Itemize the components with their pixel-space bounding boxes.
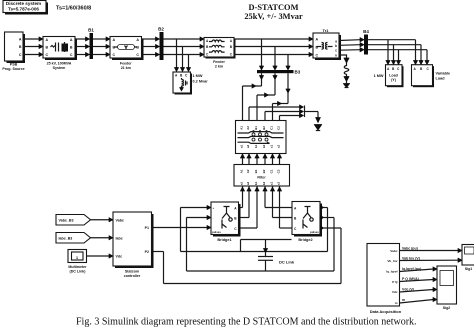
from tag Vabc_B3 xyxy=(56,215,113,226)
svg-text:Load: Load xyxy=(436,77,446,81)
pulse wire P2 to bridge2 xyxy=(152,228,342,284)
bus B2 xyxy=(158,27,164,61)
svg-text:A: A xyxy=(316,38,319,42)
svg-text:C: C xyxy=(113,53,116,57)
from tag Iabc_B3 xyxy=(56,233,113,244)
wire feeder21 to B2 xyxy=(142,37,160,57)
wire PSB to system (3 phases) xyxy=(23,37,43,57)
svg-text:Sig1: Sig1 xyxy=(465,267,473,271)
svg-text:Fig. 3 Simulink diagram repres: Fig. 3 Simulink diagram representing the… xyxy=(76,317,417,327)
svg-text:Vdc (V): Vdc (V) xyxy=(402,287,414,291)
IGBT bridge1 xyxy=(211,202,241,242)
wires B4 to loads (3 rails with taps) xyxy=(368,40,429,65)
svg-text:b2: b2 xyxy=(262,144,266,148)
svg-text:Bridge1: Bridge1 xyxy=(217,238,231,242)
svg-text:Vabc_B3: Vabc_B3 xyxy=(59,219,74,223)
25 kV 100MVA system block xyxy=(43,37,77,70)
svg-text:25 kV, 100MVA: 25 kV, 100MVA xyxy=(47,61,72,65)
signal wires to scopes xyxy=(400,246,463,303)
svg-text:B1: B1 xyxy=(254,126,258,130)
svg-text:Iabc: Iabc xyxy=(116,236,123,240)
statcom controller block xyxy=(113,212,154,278)
svg-text:A1: A1 xyxy=(240,169,244,173)
svg-text:C: C xyxy=(19,53,22,57)
svg-text:a1: a1 xyxy=(240,145,244,149)
svg-text:0.2 Mvar: 0.2 Mvar xyxy=(193,80,209,84)
wire taps down to 1MW 0.2Mvar load xyxy=(174,39,190,72)
svg-text:c1: c1 xyxy=(270,145,274,149)
data acquisition block xyxy=(367,244,402,314)
svg-text:25kV, +/- 3Mvar: 25kV, +/- 3Mvar xyxy=(244,12,303,21)
svg-text:B1: B1 xyxy=(254,169,258,173)
svg-text:C: C xyxy=(136,53,139,57)
svg-text:a2: a2 xyxy=(246,182,250,186)
svg-text:c1: c1 xyxy=(270,182,274,186)
svg-text:a2: a2 xyxy=(246,145,250,149)
svg-text:2 km: 2 km xyxy=(215,64,223,68)
svg-text:+: + xyxy=(213,206,215,210)
svg-text:Statcom: Statcom xyxy=(125,269,139,273)
svg-text:C: C xyxy=(316,54,319,58)
svg-text:B: B xyxy=(46,45,49,49)
wires bridges up to filter xyxy=(239,186,293,228)
svg-text:PSB: PSB xyxy=(10,63,18,67)
wire taps down to bus B3 xyxy=(259,39,290,70)
svg-text:Ts=1/60/360/8: Ts=1/60/360/8 xyxy=(56,5,91,11)
svg-text:b1: b1 xyxy=(254,144,258,148)
ground branch from Tr1 neutral xyxy=(339,55,350,88)
svg-text:Vdc: Vdc xyxy=(116,255,123,259)
dc link + rail (bridge1 + to bridge2 +) xyxy=(181,208,328,252)
svg-text:C1: C1 xyxy=(270,126,274,130)
coupling transformer (zigzag) block xyxy=(236,121,287,154)
svg-text:Bridge2: Bridge2 xyxy=(298,238,312,242)
svg-text:Vdc: Vdc xyxy=(392,290,398,294)
svg-text:A2: A2 xyxy=(246,169,250,173)
scope Sig1 xyxy=(462,245,474,272)
svg-text:1 MW: 1 MW xyxy=(193,74,203,78)
svg-text:D-STATCOM: D-STATCOM xyxy=(249,3,299,12)
svg-text:Multimeter: Multimeter xyxy=(68,265,87,269)
bus B3 (horizontal bar) xyxy=(257,70,301,75)
svg-text:C: C xyxy=(46,53,49,57)
svg-text:B: B xyxy=(70,45,73,49)
svg-text:P2: P2 xyxy=(145,250,149,254)
feeder 2 km block xyxy=(204,38,236,69)
bus B4 xyxy=(363,29,369,55)
svg-text:pulses: pulses xyxy=(310,230,319,234)
scope Sig2 xyxy=(437,266,457,310)
svg-text:B: B xyxy=(19,45,22,49)
svg-text:Iq_Iqref: Iq_Iqref xyxy=(386,270,398,274)
svg-text:A: A xyxy=(113,38,116,42)
svg-text:C: C xyxy=(70,53,73,57)
load 1MW 0.2Mvar xyxy=(173,72,208,95)
variable load xyxy=(412,65,451,88)
svg-text:B2: B2 xyxy=(262,126,266,130)
svg-text:21 km: 21 km xyxy=(121,66,131,70)
svg-text:m: m xyxy=(402,298,405,302)
svg-text:B1: B1 xyxy=(88,28,94,33)
svg-text:Feeder: Feeder xyxy=(213,60,225,64)
svg-text:pulses: pulses xyxy=(212,230,221,234)
svg-text:Tr1: Tr1 xyxy=(322,28,329,33)
svg-text:Sig2: Sig2 xyxy=(443,306,451,310)
svg-text:P Q: P Q xyxy=(392,280,398,284)
svg-text:C2: C2 xyxy=(277,126,281,130)
feeder 21 km block xyxy=(110,37,144,70)
svg-text:b2: b2 xyxy=(262,181,266,185)
svg-text:Prog. Source: Prog. Source xyxy=(2,67,24,71)
svg-text:B2: B2 xyxy=(262,169,266,173)
dc link minus rail (bridge1 - to bridge2 -) xyxy=(187,218,335,272)
IGBT bridge2 xyxy=(292,202,322,242)
svg-text:P1: P1 xyxy=(145,226,149,230)
svg-text:B2: B2 xyxy=(158,27,164,32)
svg-text:A: A xyxy=(136,38,139,42)
svg-text:System: System xyxy=(53,66,66,70)
dc link capacitor xyxy=(258,240,295,272)
filter block xyxy=(234,165,290,187)
wire B1 to Feeder 21km xyxy=(93,37,110,57)
wires transformer secondary neutrals to ground xyxy=(249,105,322,131)
svg-text:Variable: Variable xyxy=(436,72,451,76)
svg-text:(Y): (Y) xyxy=(391,78,397,82)
svg-text:c2: c2 xyxy=(277,145,281,149)
load 1 MW (Y) xyxy=(374,65,404,88)
svg-text:Load: Load xyxy=(389,74,398,78)
svg-text:Feeder: Feeder xyxy=(120,61,132,65)
svg-text:Filter: Filter xyxy=(257,175,266,179)
svg-text:Vabc: Vabc xyxy=(116,218,124,222)
transformer Tr1 xyxy=(313,28,341,60)
svg-text:Ts=5.787e-006: Ts=5.787e-006 xyxy=(8,6,39,11)
svg-text:DC Link: DC Link xyxy=(279,260,295,265)
wire Tr1 to B4 xyxy=(339,38,364,52)
svg-text:Vabc: Vabc xyxy=(390,249,398,253)
svg-text:B3: B3 xyxy=(295,70,301,75)
svg-text:-: - xyxy=(213,216,214,220)
svg-text:c2: c2 xyxy=(277,182,281,186)
svg-text:Data Acquisition: Data Acquisition xyxy=(370,309,402,314)
discrete system box xyxy=(3,1,48,15)
svg-text:b: b xyxy=(335,44,337,48)
svg-text:Vb_Inv: Vb_Inv xyxy=(387,259,397,263)
svg-text:controller: controller xyxy=(124,274,141,278)
bridge2 right terminals out xyxy=(320,205,324,230)
wire B2 to Feeder 2km (3 rails) xyxy=(164,37,205,57)
svg-text:a: a xyxy=(335,39,337,43)
source PSB Prog. Source xyxy=(2,32,25,71)
svg-text:Iq,Iqref (pu): Iq,Iqref (pu) xyxy=(402,267,421,271)
svg-text:C2: C2 xyxy=(277,169,281,173)
svg-text:a1: a1 xyxy=(240,182,244,186)
svg-text:Vabc (pu): Vabc (pu) xyxy=(402,246,418,250)
svg-text:B4: B4 xyxy=(363,29,369,34)
wires into bridge1 (+,-,pulses) xyxy=(152,205,212,229)
svg-text:(DC Link): (DC Link) xyxy=(70,269,87,273)
wires filter up to transformer xyxy=(240,154,281,165)
wires B3 down to coupling transformer primaries xyxy=(243,73,291,120)
svg-text:b1: b1 xyxy=(254,181,258,185)
svg-text:A2: A2 xyxy=(246,126,250,130)
wire feeder2km to Tr1 (3 rails) xyxy=(234,37,313,57)
svg-text:Vab Inv (V): Vab Inv (V) xyxy=(402,256,420,260)
svg-text:A: A xyxy=(70,38,73,42)
multimeter (DC Link) xyxy=(68,250,113,274)
svg-text:1 MW: 1 MW xyxy=(374,74,384,78)
wire system to B1 xyxy=(75,37,90,57)
svg-text:A: A xyxy=(19,38,22,42)
svg-text:c: c xyxy=(335,49,337,53)
svg-text:P Q (MVA): P Q (MVA) xyxy=(402,277,419,281)
svg-text:n: n xyxy=(335,54,337,58)
svg-text:m: m xyxy=(395,301,398,305)
svg-text:Iabc_B3: Iabc_B3 xyxy=(59,237,73,241)
bus B1 xyxy=(88,28,94,60)
svg-text:A: A xyxy=(46,38,49,42)
svg-text:A1: A1 xyxy=(240,126,244,130)
svg-text:C1: C1 xyxy=(270,169,274,173)
